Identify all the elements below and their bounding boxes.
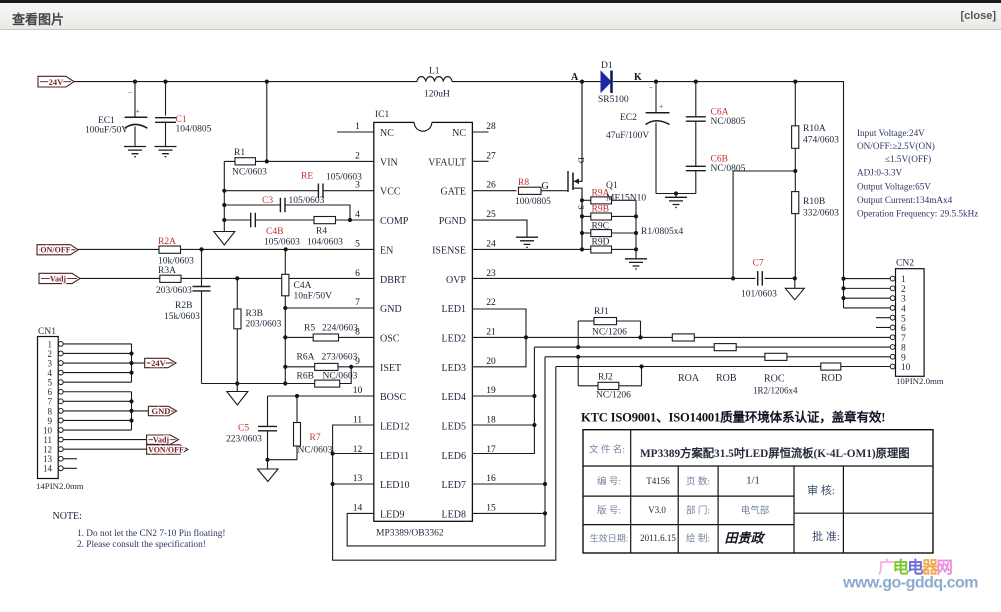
junction OVP tap <box>731 276 735 280</box>
wire EC2-C6 bottom <box>656 191 696 195</box>
net flag Vadj <box>39 273 80 283</box>
svg-text:1: 1 <box>48 339 53 349</box>
transistor Q1 <box>568 82 587 250</box>
resistor R6B <box>297 372 358 388</box>
table cell 文件名 <box>589 444 625 456</box>
svg-text:R3B: R3B <box>246 309 263 319</box>
junction EN-R2B <box>199 247 203 251</box>
resistor R7 <box>294 396 333 460</box>
svg-text:EC2: EC2 <box>620 113 637 123</box>
svg-text:LED8: LED8 <box>442 510 466 521</box>
svg-text:10: 10 <box>353 386 363 396</box>
pin 27 stub <box>472 160 488 162</box>
svg-text:R7: R7 <box>310 433 321 443</box>
junction VIN <box>265 159 269 163</box>
resistor ROC <box>764 353 787 384</box>
svg-text:6: 6 <box>48 387 53 397</box>
svg-text:ME15N10: ME15N10 <box>606 194 646 204</box>
svg-text:ROD: ROD <box>821 373 842 384</box>
svg-text:18: 18 <box>486 416 496 426</box>
svg-text:R6B: R6B <box>297 372 314 382</box>
table cell date <box>640 533 676 543</box>
svg-text:R9D: R9D <box>592 238 610 248</box>
svg-text:13: 13 <box>353 474 363 484</box>
wire channel D <box>556 366 893 368</box>
svg-text:7: 7 <box>355 298 360 308</box>
ground under C5 <box>258 460 279 482</box>
svg-text:203/0603: 203/0603 <box>246 320 282 330</box>
svg-text:NC/0603: NC/0603 <box>232 168 267 178</box>
svg-text:NC/0805: NC/0805 <box>711 164 746 174</box>
svg-text:120uH: 120uH <box>424 90 450 100</box>
wire GATE <box>472 190 516 192</box>
svg-text:R6A: R6A <box>297 353 315 363</box>
diode D1 <box>598 61 629 105</box>
svg-text:C4A: C4A <box>294 281 312 291</box>
svg-text:6: 6 <box>901 324 906 334</box>
svg-text:9: 9 <box>901 353 906 363</box>
svg-text:R4: R4 <box>316 227 327 237</box>
capacitor C6B <box>686 155 746 194</box>
svg-text:MP3389方案配31.5吋LED屏恒流板(K-4L-OM1: MP3389方案配31.5吋LED屏恒流板(K-4L-OM1)原理图 <box>640 446 910 460</box>
svg-text:R2B: R2B <box>175 301 192 311</box>
svg-text:LED12: LED12 <box>380 422 409 433</box>
wire BOSC <box>268 395 375 397</box>
net flag Vadj CN1 <box>63 435 178 445</box>
svg-text:LED10: LED10 <box>380 480 409 491</box>
svg-text:R10B: R10B <box>803 197 825 207</box>
junction DBRT-R3B <box>235 276 239 280</box>
resistor R3B <box>234 278 282 383</box>
svg-text:NC/0603: NC/0603 <box>298 446 333 456</box>
svg-text:104/0805: 104/0805 <box>176 125 212 135</box>
svg-text:203/0603: 203/0603 <box>156 286 192 296</box>
svg-text:23: 23 <box>486 269 496 279</box>
table info box grid <box>583 430 933 553</box>
svg-text:NC: NC <box>380 128 394 139</box>
ground under C1 <box>155 147 177 157</box>
svg-text:NC/0603: NC/0603 <box>323 372 358 382</box>
svg-text:IC1: IC1 <box>375 110 390 120</box>
svg-text:10PIN2.0mm: 10PIN2.0mm <box>896 376 944 386</box>
svg-text:5: 5 <box>355 239 360 249</box>
svg-text:PGND: PGND <box>439 216 466 227</box>
svg-text:RE: RE <box>301 172 313 182</box>
wire CN1 pins1-5 bus <box>63 344 133 382</box>
svg-text:10: 10 <box>901 363 911 373</box>
node K <box>634 72 642 83</box>
svg-text:NC: NC <box>452 128 466 139</box>
junction EN-bus <box>284 247 288 251</box>
svg-text:电气部: 电气部 <box>741 505 770 517</box>
capacitor C4A <box>282 249 332 383</box>
svg-text:Vadj: Vadj <box>153 436 169 445</box>
capacitor EC2 <box>606 82 670 194</box>
svg-text:ROC: ROC <box>764 374 785 385</box>
table cell 电气部 <box>741 505 770 517</box>
wire channel C <box>545 356 893 358</box>
pin 1 stub <box>337 131 374 133</box>
svg-text:14PIN2.0mm: 14PIN2.0mm <box>36 481 84 491</box>
svg-text:绘 制:: 绘 制: <box>686 533 710 545</box>
svg-text:24V: 24V <box>151 358 167 368</box>
svg-text:RJ2: RJ2 <box>598 373 613 383</box>
junctions center bus <box>283 306 287 369</box>
ground under R9 <box>625 259 647 269</box>
svg-text:105/0603: 105/0603 <box>264 238 300 248</box>
svg-text:100/0805: 100/0805 <box>515 197 551 207</box>
svg-text:Input Voltage:24V: Input Voltage:24V <box>857 128 925 138</box>
svg-text:生效日期:: 生效日期: <box>590 533 629 544</box>
ground left bus <box>214 232 235 246</box>
svg-text:223/0603: 223/0603 <box>226 435 262 445</box>
svg-text:7: 7 <box>901 334 906 344</box>
wire 24V rail right <box>613 82 844 308</box>
svg-text:47uF/100V: 47uF/100V <box>606 131 649 141</box>
svg-text:VCC: VCC <box>380 187 401 198</box>
svg-text:ISENSE: ISENSE <box>432 245 466 256</box>
svg-text:4: 4 <box>355 210 360 220</box>
svg-text:19: 19 <box>486 386 496 396</box>
net flag VON/OFF CN1 <box>63 445 188 455</box>
header bar <box>0 0 1001 30</box>
capacitor RE <box>301 172 362 198</box>
resistor RJ1 <box>576 307 643 349</box>
junction C7 gnd <box>793 276 797 280</box>
label NOTE <box>53 511 226 550</box>
connector CN1 <box>36 327 84 491</box>
resistor R8 <box>515 178 551 207</box>
wire VCC <box>224 190 374 192</box>
wire C7 right <box>765 277 795 279</box>
resistor R10B <box>792 171 840 278</box>
svg-text:EN: EN <box>380 245 393 256</box>
svg-text:24V: 24V <box>49 77 65 87</box>
svg-text:+: + <box>136 107 140 116</box>
svg-text:LED11: LED11 <box>380 451 409 462</box>
table cell 审核 <box>807 483 835 497</box>
svg-text:NC/0805: NC/0805 <box>711 117 746 127</box>
table cell 1/1 <box>746 476 759 487</box>
resistor ROA <box>672 334 700 384</box>
resistor R6A <box>297 353 358 371</box>
svg-text:R3A: R3A <box>158 266 176 276</box>
svg-text:ON/OFF: ON/OFF <box>40 246 70 255</box>
svg-text:ROA: ROA <box>678 373 700 384</box>
capacitor C3 <box>262 196 325 212</box>
ground under R3B <box>227 384 248 406</box>
ground under PGND <box>516 237 538 247</box>
svg-text:21: 21 <box>486 327 496 337</box>
wire CN1 pin14 stub <box>63 467 77 469</box>
ground after C7 <box>785 278 804 299</box>
ground under EC2 <box>665 194 687 208</box>
wire DBRT <box>80 277 374 279</box>
svg-text:−: − <box>649 84 653 92</box>
resistor R5 <box>304 324 358 342</box>
label KTC title <box>581 410 885 425</box>
table cell title <box>640 446 910 460</box>
svg-text:GND: GND <box>152 406 171 416</box>
svg-text:ISET: ISET <box>380 363 401 374</box>
wire CN1 pin13 stub <box>63 458 77 460</box>
svg-text:C1: C1 <box>176 115 187 125</box>
svg-text:8: 8 <box>48 406 53 416</box>
wire VIN <box>224 160 374 162</box>
svg-text:R2A: R2A <box>158 237 176 247</box>
wire LED4-6 bus <box>472 347 536 453</box>
svg-text:C5: C5 <box>238 424 249 434</box>
resistor R1 <box>232 148 267 178</box>
svg-text:LED7: LED7 <box>442 480 466 491</box>
wire R9 left bus <box>580 198 584 251</box>
svg-text:ROB: ROB <box>716 373 737 384</box>
resistor R9D <box>582 238 636 253</box>
wire LED10-12 bus <box>331 367 556 561</box>
svg-text:5: 5 <box>901 314 906 324</box>
svg-text:编 号:: 编 号: <box>597 476 621 488</box>
svg-text:D: D <box>577 157 587 163</box>
wire R9 right bus <box>634 200 638 258</box>
svg-text:29.5.5kHz: 29.5.5kHz <box>940 209 978 219</box>
wire 24V rail left <box>74 81 417 83</box>
table cell 编号 <box>597 476 621 488</box>
svg-text:www.go-gddq.com: www.go-gddq.com <box>842 575 978 592</box>
svg-text:104/0603: 104/0603 <box>307 238 343 248</box>
svg-text:G: G <box>542 181 549 192</box>
svg-text:Q1: Q1 <box>606 181 618 191</box>
wire ISENSE <box>472 248 582 250</box>
svg-text:C7: C7 <box>753 259 764 269</box>
svg-text:审 核:: 审 核: <box>807 483 835 497</box>
wire EN <box>78 248 374 250</box>
svg-text:LED2: LED2 <box>442 333 466 344</box>
wire left bus <box>223 161 225 231</box>
svg-text:VON/OFF: VON/OFF <box>148 445 184 454</box>
svg-text:VFAULT: VFAULT <box>428 157 466 168</box>
svg-text:DBRT: DBRT <box>380 275 406 286</box>
net flag 24V CN1 <box>132 358 177 368</box>
svg-text:CN2: CN2 <box>896 259 914 269</box>
svg-text:LED3: LED3 <box>442 363 466 374</box>
wire 24V rail mid <box>452 81 601 83</box>
svg-text:101/0603: 101/0603 <box>741 290 777 300</box>
wire CN1 pins6-10 bus <box>63 392 133 430</box>
capacitor C4B <box>251 213 300 248</box>
svg-text:R1/0805x4: R1/0805x4 <box>641 227 683 237</box>
svg-text:LED9: LED9 <box>380 510 404 521</box>
svg-text:14: 14 <box>43 464 53 474</box>
svg-text:24: 24 <box>486 239 496 249</box>
svg-text:3: 3 <box>901 295 906 305</box>
svg-text:Vadj: Vadj <box>50 275 66 284</box>
junction R10 divider <box>793 169 797 173</box>
svg-text:Output Voltage:65V: Output Voltage:65V <box>857 182 931 192</box>
svg-text:28: 28 <box>486 122 496 132</box>
svg-text:ON/OFF:≥2.5V(ON): ON/OFF:≥2.5V(ON) <box>857 141 935 151</box>
svg-text:Output Current:134mAx4: Output Current:134mAx4 <box>857 195 953 205</box>
svg-text:BOSC: BOSC <box>380 392 406 403</box>
svg-text:1R2/1206x4: 1R2/1206x4 <box>753 386 798 396</box>
wire COMP <box>224 219 374 221</box>
svg-text:25: 25 <box>486 210 496 220</box>
IC1 pin numbers <box>353 122 496 514</box>
resistor R4 <box>307 217 343 248</box>
table cell T4156 <box>646 476 670 486</box>
svg-text:−: − <box>128 89 132 97</box>
wire channel A <box>472 336 892 338</box>
IC1 pin names <box>380 128 466 521</box>
svg-text:L1: L1 <box>429 67 440 77</box>
svg-text:7: 7 <box>48 397 53 407</box>
svg-text:C3: C3 <box>262 196 273 206</box>
svg-text:14: 14 <box>353 504 363 514</box>
wire LED1-3 bus <box>472 309 528 367</box>
svg-text:LED6: LED6 <box>442 451 466 462</box>
svg-text:版 号:: 版 号: <box>597 505 621 517</box>
svg-text:NC/1206: NC/1206 <box>596 391 631 401</box>
wire ISET <box>285 366 374 368</box>
svg-text:16: 16 <box>486 474 496 484</box>
svg-text:1/1: 1/1 <box>746 476 759 487</box>
capacitor C1 <box>155 82 212 146</box>
junction gnd net <box>235 381 287 385</box>
svg-text:批 准:: 批 准: <box>812 529 840 543</box>
svg-text:1: 1 <box>901 275 906 285</box>
svg-text:RJ1: RJ1 <box>594 307 609 317</box>
label spec text <box>857 128 978 219</box>
svg-text:1: 1 <box>355 122 360 132</box>
resistor ROD <box>821 363 842 384</box>
svg-text:11: 11 <box>43 435 52 445</box>
svg-text:3: 3 <box>355 181 360 191</box>
svg-text:C6A: C6A <box>711 108 729 118</box>
table cell V3.0 <box>648 505 666 515</box>
svg-text:474/0603: 474/0603 <box>803 136 839 146</box>
wire PGND <box>472 220 527 237</box>
svg-text:LED1: LED1 <box>442 304 466 315</box>
resistor R9A <box>582 189 636 204</box>
wire OVP <box>472 277 755 279</box>
svg-text:4: 4 <box>48 368 53 378</box>
svg-text:9: 9 <box>355 357 360 367</box>
net flag GND CN1 <box>132 406 177 416</box>
svg-text:R10A: R10A <box>803 124 826 134</box>
svg-text:13: 13 <box>43 454 53 464</box>
svg-text:KTC ISO9001、ISO14001质量环境体系认证，盖: KTC ISO9001、ISO14001质量环境体系认证，盖章有效! <box>581 410 885 425</box>
resistor R10A <box>792 82 840 171</box>
svg-text:2: 2 <box>355 151 360 161</box>
net flag ON/OFF <box>37 245 78 255</box>
wire CN2 5-6 stubs <box>876 318 890 328</box>
resistor R9B <box>582 205 636 220</box>
wire rail to VIN <box>266 82 268 162</box>
svg-text:10k/0603: 10k/0603 <box>158 257 194 267</box>
svg-text:A: A <box>571 72 579 83</box>
capacitor C5 <box>226 396 277 460</box>
svg-text:26: 26 <box>486 181 496 191</box>
wire OVP tap up <box>733 171 795 278</box>
wire R6B to ISET <box>340 365 354 384</box>
svg-text:10: 10 <box>43 425 53 435</box>
wire C5-R7 join <box>265 394 299 462</box>
svg-text:20: 20 <box>486 357 496 367</box>
wire LED7-9 bus <box>347 357 547 546</box>
label Q1 <box>606 181 646 204</box>
junctions left bus <box>222 189 352 223</box>
svg-text:10nF/50V: 10nF/50V <box>294 292 333 302</box>
svg-text:4: 4 <box>901 305 906 315</box>
svg-text:GND: GND <box>380 304 402 315</box>
watermark go-gddq <box>842 557 978 592</box>
svg-text:≤1.5V(OFF): ≤1.5V(OFF) <box>885 154 931 164</box>
net flag 24V input <box>38 76 74 87</box>
svg-text:D1: D1 <box>601 61 613 71</box>
wire R8 to gate <box>541 181 568 192</box>
table cell 田贵政 <box>724 531 765 546</box>
svg-text:NOTE:: NOTE: <box>53 511 82 522</box>
svg-text:LED4: LED4 <box>442 392 466 403</box>
table cell 批准 <box>812 529 840 543</box>
svg-text:22: 22 <box>486 298 496 308</box>
svg-text:332/0603: 332/0603 <box>803 209 839 219</box>
wire GND pin7 <box>285 307 374 309</box>
inductor L1 <box>417 67 452 100</box>
label 1R2/1206x4 <box>753 386 798 396</box>
svg-text:R1: R1 <box>234 148 245 158</box>
table cell 绘制 <box>686 533 710 545</box>
svg-text:R9C: R9C <box>592 221 609 231</box>
svg-text:273/0603: 273/0603 <box>322 353 358 363</box>
svg-text:GATE: GATE <box>440 187 466 198</box>
wire C3 net <box>224 205 350 220</box>
svg-text:2011.6.15: 2011.6.15 <box>640 533 676 543</box>
svg-text:V3.0: V3.0 <box>648 505 666 515</box>
svg-text:+: + <box>659 102 663 111</box>
wire channel B <box>534 346 892 348</box>
svg-text:15: 15 <box>486 504 496 514</box>
svg-text:Operation Frequency:: Operation Frequency: <box>857 209 937 219</box>
svg-text:LED5: LED5 <box>442 422 466 433</box>
svg-text:OVP: OVP <box>446 275 466 286</box>
svg-text:8: 8 <box>901 344 906 354</box>
resistor R9C <box>582 221 636 236</box>
resistor RJ2 <box>576 355 644 401</box>
svg-text:页 数:: 页 数: <box>686 476 710 488</box>
capacitor EC1 <box>85 82 147 146</box>
svg-text:ADJ:0-3.3V: ADJ:0-3.3V <box>857 168 903 178</box>
capacitor C6A <box>686 82 746 167</box>
svg-text:12: 12 <box>43 445 52 455</box>
svg-text:SR5100: SR5100 <box>598 95 629 105</box>
svg-text:OSC: OSC <box>380 333 400 344</box>
svg-text:R8: R8 <box>518 178 529 188</box>
svg-text:5: 5 <box>48 378 53 388</box>
resistor R3A <box>156 266 192 296</box>
connector CN2 <box>890 259 944 387</box>
svg-text:224/0603: 224/0603 <box>322 324 358 334</box>
op-amp U1 IC1 MP3389 body <box>374 110 473 539</box>
svg-text:27: 27 <box>486 151 496 161</box>
resistor R2A <box>158 237 194 267</box>
svg-text:EC1: EC1 <box>98 116 115 126</box>
svg-text:T4156: T4156 <box>646 476 670 486</box>
svg-text:文 件 名:: 文 件 名: <box>589 444 625 456</box>
label R1/0805x4 <box>641 227 683 237</box>
svg-text:2. Please consult the specifi: 2. Please consult the specification! <box>77 539 206 550</box>
svg-text:田贵政: 田贵政 <box>724 531 765 546</box>
resistor ROB <box>714 344 737 384</box>
